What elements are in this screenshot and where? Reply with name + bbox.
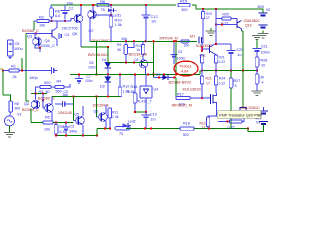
wire R2 left down — [33, 21, 35, 30]
svg-text:R21: R21 — [206, 76, 212, 80]
ground above C21 — [252, 35, 262, 37]
capacitor C4 — [58, 33, 60, 39]
resistor R7 — [55, 123, 57, 125]
capacitor C5 electrolytic — [8, 40, 14, 56]
svg-text:100n: 100n — [85, 79, 93, 83]
wire mid lower net — [108, 62, 154, 64]
wire Q13 emitter to output rail — [241, 29, 243, 31]
svg-text:500: 500 — [44, 80, 51, 85]
capacitor C20 — [216, 43, 231, 45]
svg-text:R1: R1 — [11, 63, 16, 68]
wire Q3 emitter — [35, 46, 40, 48]
svg-text:6.8: 6.8 — [60, 130, 65, 134]
capacitor C12 — [145, 5, 147, 15]
svg-text:U4: U4 — [154, 87, 159, 91]
svg-text:C8: C8 — [89, 61, 93, 65]
svg-text:R8: R8 — [15, 102, 19, 106]
svg-text:75: 75 — [119, 132, 123, 136]
svg-text:Probe1: Probe1 — [180, 64, 192, 68]
svg-text:D3: D3 — [156, 73, 160, 77]
resistor R8 — [97, 3, 109, 6]
resistor RL — [256, 71, 258, 75]
resistor R21 lower — [201, 71, 203, 77]
wire output rail — [202, 70, 257, 72]
capacitor C21 — [256, 40, 258, 48]
wire V1 feed — [2, 71, 4, 96]
wire Q5 emitter — [82, 125, 84, 136]
resistor R22 — [208, 104, 217, 118]
svg-text:2k: 2k — [13, 74, 17, 79]
svg-text:R17: R17 — [177, 92, 184, 96]
wire feedback vertical — [21, 58, 23, 71]
wire Q1 base vertical — [42, 94, 44, 109]
svg-text:100: 100 — [184, 44, 190, 48]
wire mid column to output — [175, 41, 177, 74]
source V1 — [9, 112, 12, 116]
wire bias bottom — [135, 111, 146, 113]
svg-text:2SA1380C: 2SA1380C — [91, 38, 110, 43]
svg-text:10: 10 — [261, 63, 265, 67]
svg-text:C9: C9 — [178, 50, 182, 54]
transistor Q6 — [74, 14, 83, 23]
svg-text:R5: R5 — [45, 115, 50, 119]
svg-text:BZV88-B9V2: BZV88-B9V2 — [169, 79, 192, 84]
resistor R9 — [124, 45, 127, 55]
wire R3 left down — [36, 87, 41, 94]
resistor R21 upper — [214, 55, 217, 63]
wire R25 to Q13 collector — [231, 19, 237, 22]
wire mirror left vertical — [25, 34, 27, 102]
transistor Q7 — [88, 10, 97, 19]
svg-text:V2: V2 — [266, 8, 270, 12]
ground of V2 — [258, 33, 269, 35]
wire bottom negative rail — [97, 128, 111, 130]
led Led2 — [123, 123, 128, 127]
wire Led1 to R10 — [110, 12, 112, 17]
transistor Q8 — [99, 113, 108, 122]
svg-text:V1: V1 — [17, 112, 22, 117]
node top rail VAS right — [202, 8, 204, 10]
svg-text:Q6: Q6 — [72, 31, 77, 36]
resistor R20 — [200, 55, 203, 63]
svg-text:4: 4 — [262, 80, 264, 84]
svg-text:Rl: Rl — [261, 75, 265, 79]
svg-text:R8: R8 — [100, 0, 105, 4]
tooltip PNP Transistor Q20 PNP — [218, 111, 261, 118]
svg-text:R21: R21 — [219, 55, 225, 59]
svg-text:300: 300 — [181, 7, 188, 12]
svg-text:3: 3 — [235, 84, 237, 88]
wire R4 right to upper net — [64, 84, 70, 87]
wire Q6 branch — [81, 46, 108, 48]
resistor R13 — [141, 45, 144, 55]
wire top rail corner at R6 — [50, 5, 52, 8]
svg-text:PNP Transistor Q20 PNP: PNP Transistor Q20 PNP — [219, 113, 262, 117]
svg-text:R11: R11 — [112, 110, 118, 114]
resistor R16 — [115, 127, 130, 130]
ground of RL — [252, 90, 263, 92]
wire Q2 emitter down — [30, 109, 32, 123]
svg-text:R28: R28 — [261, 58, 268, 62]
svg-text:0.22: 0.22 — [219, 81, 226, 85]
ground mid top — [210, 28, 212, 31]
wire Q8 emitter — [105, 121, 107, 129]
resistor R24 — [215, 71, 217, 77]
wire Q3 collector — [34, 34, 36, 38]
wire output mid net — [70, 74, 200, 76]
svg-text:1.5k: 1.5k — [115, 22, 122, 27]
svg-text:Led2: Led2 — [128, 120, 136, 124]
wire to Q8 base — [96, 97, 98, 118]
ground of V1 — [4, 132, 15, 134]
wire Q6 emitter — [80, 23, 82, 47]
svg-text:17: 17 — [202, 126, 206, 130]
svg-text:6.8: 6.8 — [55, 13, 60, 18]
svg-text:2SC2547E: 2SC2547E — [93, 103, 110, 107]
wire top positive rail — [51, 4, 176, 6]
resistor R27 — [230, 71, 232, 79]
svg-text:10k: 10k — [121, 36, 127, 41]
wire output to lower driver — [242, 71, 244, 108]
resistor R11 — [108, 108, 111, 118]
resistor R6 — [50, 8, 54, 17]
svg-text:BC560_C: BC560_C — [22, 28, 39, 33]
svg-text:6.8k: 6.8k — [128, 90, 135, 94]
wire VAS base — [49, 20, 71, 22]
resistor R5 — [31, 122, 43, 124]
wire zener bottom net — [52, 96, 120, 98]
svg-text:BC560_C: BC560_C — [22, 107, 39, 112]
wire VAS base row — [90, 40, 197, 42]
resistor R17 — [176, 96, 190, 99]
resistor R28 — [255, 57, 259, 67]
wire zener column — [107, 47, 109, 62]
svg-text:V3: V3 — [256, 121, 260, 125]
svg-text:600: 600 — [15, 107, 21, 111]
svg-text:Q3: Q3 — [27, 33, 32, 38]
svg-text:R4: R4 — [57, 80, 62, 84]
resistor R16 gate stopper — [181, 40, 189, 43]
svg-text:1u: 1u — [238, 53, 242, 57]
capacitor C9 — [173, 41, 175, 54]
capacitor C7 — [78, 75, 80, 79]
transistor Q1 — [45, 104, 54, 113]
svg-text:0.22: 0.22 — [228, 126, 235, 130]
svg-text:IRF9610_M: IRF9610_M — [172, 102, 192, 107]
svg-text:Q13: Q13 — [245, 24, 252, 28]
node R2-R6 junction — [50, 20, 52, 22]
svg-text:100m: 100m — [177, 57, 186, 61]
svg-text:Q5: Q5 — [74, 113, 79, 117]
resistor R1 — [3, 70, 9, 72]
resistor R12 — [119, 75, 121, 88]
svg-text:C2: C2 — [69, 5, 74, 10]
wire lower-left ground rail — [56, 135, 97, 137]
wire M1 drain up — [202, 37, 204, 44]
svg-text:1m: 1m — [151, 117, 156, 121]
svg-text:50: 50 — [118, 48, 122, 52]
capacitor C10 — [145, 112, 147, 115]
svg-text:R14: R14 — [131, 85, 138, 89]
wire diff top — [31, 93, 47, 95]
svg-text:D1: D1 — [102, 57, 107, 62]
battery V3 — [263, 107, 265, 111]
svg-text:100n: 100n — [88, 65, 96, 69]
capacitor C2 — [64, 5, 66, 11]
resistor R25 — [222, 17, 231, 20]
transistor Q12 bias — [142, 55, 144, 61]
svg-text:560: 560 — [56, 89, 62, 93]
wire Q7 collector — [92, 5, 94, 10]
svg-text:MJL3281C: MJL3281C — [241, 105, 260, 110]
svg-text:Q8: Q8 — [94, 109, 99, 113]
resistor R4 — [55, 86, 64, 89]
svg-text:C8: C8 — [134, 58, 138, 62]
transistor Q5 — [76, 116, 85, 125]
resistor R2 — [37, 20, 49, 23]
wire Q7 base — [95, 14, 111, 16]
svg-text:R12: R12 — [123, 84, 130, 88]
wire D3 to R17 — [175, 77, 177, 98]
svg-text:TL431_T: TL431_T — [137, 99, 153, 103]
svg-text:R2: R2 — [39, 14, 44, 19]
svg-text:C3: C3 — [70, 125, 75, 129]
resistor R26 — [218, 121, 230, 123]
svg-text:BD139_16: BD139_16 — [129, 52, 147, 57]
resistor R15 — [178, 3, 190, 6]
svg-text:R15: R15 — [180, 0, 187, 4]
wire battery V2 to ground — [262, 31, 264, 33]
wire above tooltip — [240, 108, 246, 111]
svg-text:MJL1302C: MJL1302C — [196, 44, 213, 48]
capacitor C3 — [65, 123, 67, 127]
wire R26 to driver — [242, 119, 244, 122]
wire Q7 emitter — [89, 19, 91, 42]
svg-text:1.3k: 1.3k — [112, 115, 119, 119]
svg-text:100m: 100m — [261, 51, 270, 55]
svg-text:56p: 56p — [63, 93, 69, 97]
ic U4 TL431 — [145, 75, 147, 87]
resistor R14 — [134, 75, 136, 94]
svg-text:IRFP240_M: IRFP240_M — [160, 36, 178, 40]
svg-text:R27: R27 — [234, 79, 241, 83]
svg-text:2SA1145: 2SA1145 — [58, 111, 72, 115]
led Led1 — [110, 5, 112, 9]
svg-text:17: 17 — [206, 16, 210, 20]
transistor Q13 — [236, 21, 238, 28]
wire Q7 branch down — [96, 41, 98, 74]
node top rail C12 — [145, 4, 147, 6]
svg-text:R9: R9 — [117, 43, 121, 47]
svg-text:300: 300 — [183, 133, 189, 137]
wire to Q5 base — [73, 97, 75, 121]
wire Q13 base — [216, 24, 237, 26]
battery V2 — [259, 12, 268, 14]
svg-text:150p: 150p — [29, 75, 38, 80]
capacitor C6 — [62, 101, 64, 107]
svg-text:1m: 1m — [151, 18, 156, 23]
svg-text:0.22: 0.22 — [219, 60, 226, 64]
capacitor C 150p — [33, 70, 52, 72]
probe Probe1 — [174, 61, 198, 76]
node R1 right — [21, 69, 23, 71]
wire R17 to M2 gate — [190, 97, 211, 99]
plus mark of C5 — [9, 57, 12, 59]
svg-text:Q7: Q7 — [89, 28, 94, 33]
resistor R10 — [109, 16, 113, 27]
transistor Q2 — [35, 94, 37, 101]
svg-text:C20: C20 — [237, 48, 244, 52]
wire battery V3 to rail — [248, 124, 264, 131]
wire V1 to ground — [9, 126, 11, 133]
svg-text:Q2: Q2 — [24, 101, 29, 106]
resistor R19 — [202, 9, 204, 12]
hook R9 to node — [128, 41, 134, 47]
svg-text:C4: C4 — [65, 33, 70, 37]
wire Q1 emitter down — [51, 112, 53, 121]
svg-text:R18: R18 — [183, 121, 190, 125]
svg-text:10k: 10k — [39, 23, 45, 28]
transistor Q3 — [33, 37, 42, 46]
wire rail riser — [96, 129, 98, 136]
resistor R3 — [40, 86, 51, 89]
svg-text:C21: C21 — [261, 45, 268, 49]
svg-text:R25: R25 — [223, 13, 229, 17]
mosfet M1 upper — [198, 37, 200, 44]
diode D2 — [105, 77, 112, 83]
svg-text:17: 17 — [206, 81, 210, 85]
svg-text:340u: 340u — [69, 130, 77, 134]
svg-text:100u: 100u — [14, 46, 23, 51]
transistor Q11 — [202, 48, 210, 50]
svg-text:2SA1380C: 2SA1380C — [244, 19, 261, 23]
svg-text:MJL1302C: MJL1302C — [183, 87, 202, 92]
svg-text:M1: M1 — [190, 35, 195, 39]
svg-text:40V: 40V — [258, 5, 265, 9]
resistor R source 600 — [9, 101, 13, 112]
svg-text:2SC2705: 2SC2705 — [62, 26, 78, 31]
svg-text:75: 75 — [101, 7, 105, 12]
svg-text:10k: 10k — [44, 127, 50, 131]
svg-text:R24: R24 — [219, 76, 225, 80]
svg-text:C10: C10 — [150, 112, 157, 116]
svg-text:4.64: 4.64 — [181, 70, 188, 74]
diode D3 — [154, 76, 163, 78]
wire VAS node column — [153, 41, 155, 77]
resistor R18 — [180, 127, 194, 130]
wire Q6 collector — [80, 5, 82, 15]
svg-text:D2: D2 — [100, 84, 105, 89]
